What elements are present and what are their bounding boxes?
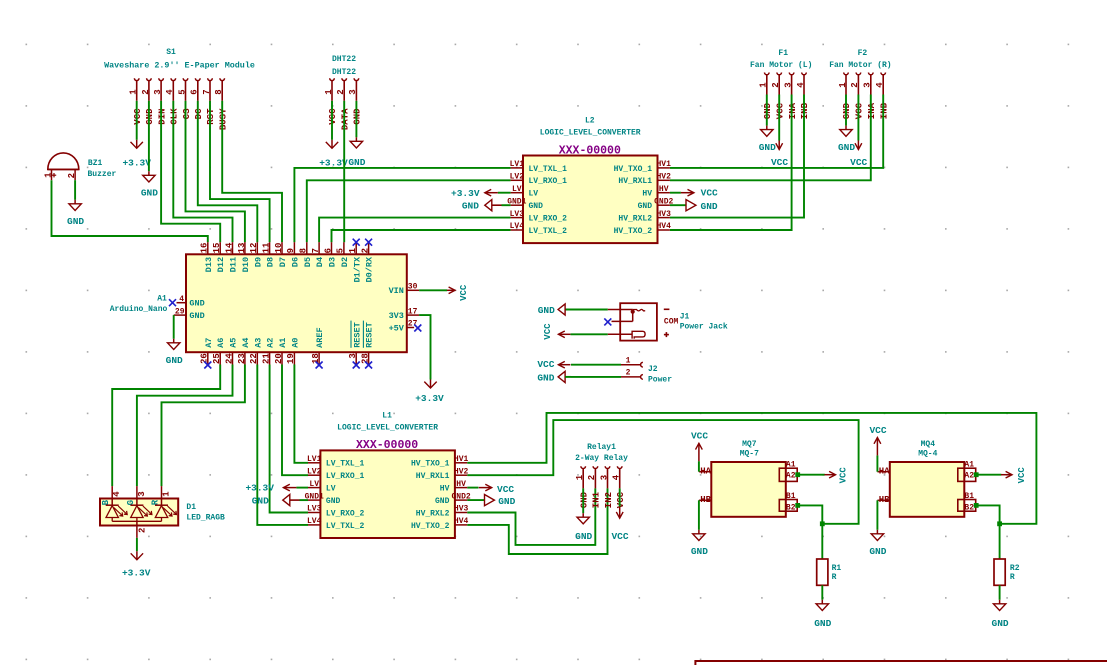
svg-text:BZ1: BZ1	[88, 159, 103, 168]
svg-text:D5: D5	[303, 257, 313, 267]
svg-text:DC: DC	[194, 108, 204, 119]
svg-text:2-Way Relay: 2-Way Relay	[575, 454, 628, 463]
svg-text:MQ-7: MQ-7	[740, 450, 759, 459]
svg-text:2: 2	[850, 82, 860, 87]
svg-text:1: 1	[626, 357, 631, 366]
svg-text:7: 7	[202, 89, 212, 94]
svg-text:HV: HV	[440, 485, 450, 494]
svg-text:VCC: VCC	[543, 323, 553, 340]
svg-text:D3: D3	[328, 257, 338, 267]
svg-text:HV1: HV1	[454, 455, 469, 464]
svg-text:B2: B2	[964, 503, 974, 512]
svg-text:9: 9	[286, 248, 296, 253]
svg-text:A1: A1	[964, 461, 974, 470]
svg-text:1: 1	[162, 491, 172, 497]
svg-text:LV_RXO_1: LV_RXO_1	[529, 177, 568, 186]
svg-text:HV_TXO_2: HV_TXO_2	[411, 522, 450, 531]
svg-text:A2: A2	[786, 472, 796, 481]
svg-text:DHT22: DHT22	[332, 55, 356, 64]
svg-text:4: 4	[796, 82, 806, 88]
svg-text:LV_TXL_2: LV_TXL_2	[529, 227, 568, 236]
svg-text:VCC: VCC	[133, 108, 143, 125]
svg-text:VCC: VCC	[850, 157, 867, 168]
svg-text:GND: GND	[348, 157, 365, 168]
svg-text:R: R	[151, 499, 161, 505]
svg-text:A1: A1	[157, 295, 167, 304]
svg-text:RESET: RESET	[365, 322, 375, 348]
svg-text:VCC: VCC	[328, 108, 338, 125]
svg-text:1: 1	[129, 89, 139, 95]
svg-text:LV3: LV3	[307, 505, 322, 514]
svg-text:HB: HB	[700, 495, 711, 505]
svg-text:VCC: VCC	[611, 531, 628, 542]
svg-text:INB: INB	[879, 102, 889, 119]
svg-text:XXX-00000: XXX-00000	[559, 144, 621, 157]
svg-text:29: 29	[175, 308, 185, 317]
svg-text:Buzzer: Buzzer	[87, 170, 116, 179]
svg-text:BUSY: BUSY	[218, 108, 228, 130]
svg-text:HV1: HV1	[656, 160, 671, 169]
svg-text:R2: R2	[1010, 564, 1020, 573]
svg-text:HV4: HV4	[454, 517, 469, 526]
svg-text:GND: GND	[189, 299, 204, 309]
svg-text:CLK: CLK	[170, 108, 180, 125]
svg-text:HV_RXL1: HV_RXL1	[416, 472, 450, 481]
svg-text:D9: D9	[253, 257, 263, 267]
svg-text:14: 14	[224, 242, 234, 253]
svg-text:LOGIC_LEVEL_CONVERTER: LOGIC_LEVEL_CONVERTER	[540, 129, 641, 138]
svg-text:HV2: HV2	[454, 467, 469, 476]
svg-text:D2: D2	[340, 257, 350, 267]
svg-text:LV1: LV1	[307, 455, 322, 464]
svg-text:30: 30	[408, 283, 418, 292]
svg-text:D11: D11	[229, 257, 239, 272]
svg-text:GND: GND	[691, 546, 708, 557]
svg-text:A7: A7	[204, 338, 214, 348]
svg-text:R: R	[1010, 573, 1015, 582]
svg-text:HV_RXL2: HV_RXL2	[618, 215, 652, 224]
svg-text:D12: D12	[216, 257, 226, 272]
svg-text:GND: GND	[992, 618, 1009, 629]
svg-text:LV_TXL_1: LV_TXL_1	[529, 165, 568, 174]
svg-text:MQ-4: MQ-4	[918, 450, 937, 459]
svg-text:B1: B1	[964, 492, 974, 501]
svg-text:MQ4: MQ4	[921, 440, 936, 449]
svg-text:6: 6	[190, 89, 200, 94]
svg-text:INA: INA	[788, 102, 798, 119]
svg-text:LOGIC_LEVEL_CONVERTER: LOGIC_LEVEL_CONVERTER	[337, 424, 438, 433]
svg-text:B1: B1	[786, 492, 796, 501]
svg-text:A2: A2	[964, 472, 974, 481]
svg-text:LV2: LV2	[307, 467, 322, 476]
svg-text:D1/TX: D1/TX	[352, 256, 362, 282]
svg-text:21: 21	[262, 353, 272, 364]
svg-text:3: 3	[783, 82, 793, 87]
svg-text:A2: A2	[266, 338, 276, 348]
svg-text:22: 22	[249, 353, 259, 364]
svg-text:HV: HV	[642, 190, 652, 199]
svg-text:GND: GND	[529, 202, 544, 211]
svg-text:LV_RXO_1: LV_RXO_1	[326, 472, 365, 481]
svg-text:VCC: VCC	[838, 467, 848, 484]
svg-text:VCC: VCC	[497, 484, 514, 495]
svg-text:2: 2	[626, 369, 631, 378]
svg-text:A3: A3	[253, 338, 263, 348]
svg-text:D6: D6	[290, 257, 300, 267]
svg-text:D4: D4	[315, 257, 325, 267]
svg-text:L1: L1	[382, 411, 392, 420]
svg-text:2: 2	[137, 528, 147, 533]
svg-text:GND: GND	[252, 496, 269, 507]
svg-text:GND: GND	[575, 531, 592, 542]
svg-text:7: 7	[311, 248, 321, 253]
svg-text:VCC: VCC	[1017, 467, 1027, 484]
svg-text:DIN: DIN	[157, 109, 167, 125]
svg-text:Power: Power	[648, 375, 672, 384]
svg-text:F2: F2	[858, 49, 868, 58]
svg-text:LV: LV	[529, 190, 539, 199]
svg-text:GND: GND	[189, 311, 204, 321]
svg-text:HV_RXL1: HV_RXL1	[618, 177, 652, 186]
svg-text:HV2: HV2	[656, 173, 671, 182]
svg-text:COM: COM	[664, 317, 679, 326]
svg-text:HA: HA	[700, 466, 711, 476]
svg-text:8: 8	[299, 248, 309, 253]
svg-text:LV: LV	[512, 185, 522, 194]
svg-text:B: B	[101, 499, 111, 505]
svg-text:4: 4	[612, 474, 622, 480]
svg-text:GND: GND	[462, 201, 479, 212]
svg-text:GND: GND	[869, 546, 886, 557]
svg-text:+3.3V: +3.3V	[451, 188, 480, 199]
svg-text:VIN: VIN	[389, 286, 404, 296]
svg-text:3: 3	[153, 89, 163, 94]
svg-text:GND: GND	[579, 491, 589, 508]
svg-text:VCC: VCC	[537, 359, 554, 370]
svg-text:2: 2	[336, 89, 346, 94]
svg-text:2: 2	[361, 248, 371, 253]
svg-text:20: 20	[274, 353, 284, 364]
svg-text:3: 3	[137, 491, 147, 496]
svg-text:+3.3V: +3.3V	[415, 393, 444, 404]
svg-text:24: 24	[224, 353, 234, 364]
svg-text:LV_TXL_2: LV_TXL_2	[326, 522, 365, 531]
svg-text:D7: D7	[278, 257, 288, 267]
svg-text:GND: GND	[166, 355, 183, 366]
svg-text:LV: LV	[309, 480, 319, 489]
svg-text:4: 4	[112, 491, 122, 497]
svg-text:Fan Motor (R): Fan Motor (R)	[829, 61, 891, 70]
svg-text:RESET: RESET	[352, 322, 362, 348]
svg-text:A4: A4	[241, 338, 251, 348]
svg-text:23: 23	[237, 353, 247, 364]
svg-text:4: 4	[875, 82, 885, 88]
svg-text:HV4: HV4	[656, 222, 671, 231]
svg-text:+3.3V: +3.3V	[245, 482, 274, 493]
svg-text:LV4: LV4	[307, 517, 322, 526]
svg-text:2: 2	[771, 82, 781, 87]
svg-text:VCC: VCC	[855, 102, 865, 119]
svg-text:D0/RX: D0/RX	[365, 256, 375, 282]
svg-text:INB: INB	[800, 102, 810, 119]
svg-text:IN1: IN1	[592, 491, 602, 508]
svg-text:5: 5	[336, 248, 346, 253]
svg-text:3: 3	[863, 82, 873, 87]
svg-text:2: 2	[587, 475, 597, 480]
svg-text:HV: HV	[659, 185, 669, 194]
svg-text:GND: GND	[326, 497, 341, 506]
svg-text:HA: HA	[879, 466, 890, 476]
svg-text:2: 2	[141, 89, 151, 94]
svg-text:3: 3	[348, 89, 358, 94]
svg-text:25: 25	[212, 353, 222, 364]
svg-text:11: 11	[262, 242, 272, 253]
svg-text:R1: R1	[832, 564, 842, 573]
svg-text:A6: A6	[216, 338, 226, 348]
svg-text:Fan Motor (L): Fan Motor (L)	[750, 61, 812, 70]
svg-text:R: R	[832, 573, 837, 582]
svg-text:VCC: VCC	[775, 102, 785, 119]
svg-text:HB: HB	[879, 495, 890, 505]
svg-text:16: 16	[200, 243, 210, 254]
svg-text:19: 19	[286, 353, 296, 364]
svg-text:5: 5	[177, 89, 187, 94]
svg-text:CS: CS	[182, 108, 192, 119]
svg-text:10: 10	[274, 243, 284, 254]
svg-text:1: 1	[324, 89, 334, 95]
svg-text:A1: A1	[786, 461, 796, 470]
svg-text:6: 6	[323, 248, 333, 253]
svg-text:HV_RXL2: HV_RXL2	[416, 509, 450, 518]
svg-text:GND: GND	[814, 618, 831, 629]
svg-text:L2: L2	[585, 116, 595, 125]
svg-text:XXX-00000: XXX-00000	[356, 439, 418, 452]
svg-text:12: 12	[249, 243, 259, 254]
svg-text:GND: GND	[67, 216, 84, 227]
svg-text:VCC: VCC	[771, 157, 788, 168]
svg-text:LV4: LV4	[510, 222, 525, 231]
svg-text:LV3: LV3	[510, 210, 525, 219]
svg-text:J1: J1	[680, 313, 690, 322]
svg-text:HV_TXO_1: HV_TXO_1	[614, 165, 653, 174]
svg-text:AREF: AREF	[315, 327, 325, 347]
svg-text:VCC: VCC	[616, 491, 626, 508]
svg-text:INA: INA	[867, 102, 877, 119]
svg-text:HV_TXO_2: HV_TXO_2	[614, 227, 653, 236]
svg-text:A0: A0	[290, 338, 300, 348]
svg-text:1: 1	[348, 247, 358, 253]
svg-text:A1: A1	[278, 338, 288, 348]
svg-text:GND: GND	[353, 108, 363, 125]
svg-text:LV1: LV1	[510, 160, 525, 169]
svg-text:3: 3	[348, 353, 358, 358]
svg-text:4: 4	[165, 89, 175, 95]
svg-text:GND: GND	[842, 102, 852, 119]
svg-text:LV_RXO_2: LV_RXO_2	[326, 509, 365, 518]
svg-text:GND: GND	[435, 497, 450, 506]
svg-text:LV_TXL_1: LV_TXL_1	[326, 460, 365, 469]
svg-text:VCC: VCC	[869, 425, 886, 436]
svg-text:1: 1	[838, 82, 848, 88]
svg-text:GND: GND	[701, 201, 718, 212]
svg-text:17: 17	[408, 307, 418, 316]
svg-text:VCC: VCC	[701, 188, 718, 199]
svg-text:GND: GND	[538, 305, 555, 316]
svg-text:15: 15	[212, 243, 222, 254]
svg-text:D8: D8	[266, 257, 276, 267]
svg-text:LV_RXO_2: LV_RXO_2	[529, 215, 568, 224]
svg-text:VCC: VCC	[691, 430, 708, 441]
svg-text:VCC: VCC	[459, 284, 469, 301]
svg-text:J2: J2	[648, 365, 658, 374]
svg-text:B2: B2	[786, 503, 796, 512]
svg-text:HV3: HV3	[454, 505, 469, 514]
svg-text:Arduino_Nano: Arduino_Nano	[110, 305, 168, 314]
svg-text:13: 13	[237, 243, 247, 254]
svg-text:4: 4	[179, 295, 184, 304]
svg-text:HV_TXO_1: HV_TXO_1	[411, 460, 450, 469]
svg-text:MQ7: MQ7	[742, 440, 757, 449]
svg-text:+3.3V: +3.3V	[122, 157, 151, 168]
svg-text:2: 2	[67, 173, 77, 178]
svg-text:1: 1	[575, 474, 585, 480]
svg-text:3V3: 3V3	[389, 311, 404, 321]
svg-text:D13: D13	[204, 257, 214, 272]
svg-text:S1: S1	[166, 48, 176, 57]
svg-text:HV3: HV3	[656, 210, 671, 219]
svg-text:GND: GND	[498, 496, 515, 507]
svg-text:LV: LV	[326, 485, 336, 494]
svg-text:GND: GND	[763, 102, 773, 119]
svg-text:LV2: LV2	[510, 173, 525, 182]
svg-text:D10: D10	[241, 257, 251, 272]
svg-text:+5V: +5V	[389, 323, 405, 333]
svg-text:DATA: DATA	[340, 108, 350, 130]
svg-text:RST: RST	[206, 108, 216, 125]
svg-text:GND: GND	[141, 188, 158, 199]
svg-text:GND: GND	[638, 202, 653, 211]
svg-text:Waveshare 2.9'' E-Paper Module: Waveshare 2.9'' E-Paper Module	[104, 61, 255, 71]
svg-text:+3.3V: +3.3V	[122, 568, 151, 579]
svg-text:IN2: IN2	[604, 492, 614, 508]
svg-text:LED_RAGB: LED_RAGB	[186, 514, 225, 523]
svg-text:1: 1	[759, 82, 769, 88]
svg-text:D1: D1	[186, 503, 196, 512]
svg-text:F1: F1	[778, 49, 788, 58]
svg-text:Power Jack: Power Jack	[680, 323, 728, 332]
svg-text:GND: GND	[537, 372, 554, 383]
svg-text:GND: GND	[838, 142, 855, 153]
svg-text:8: 8	[214, 89, 224, 94]
svg-text:3: 3	[599, 475, 609, 480]
svg-text:HV: HV	[456, 480, 466, 489]
svg-text:GND: GND	[145, 108, 155, 125]
svg-text:DHT22: DHT22	[332, 68, 356, 77]
svg-text:Relay1: Relay1	[587, 443, 616, 452]
svg-text:A5: A5	[229, 338, 239, 348]
svg-text:GND: GND	[759, 142, 776, 153]
